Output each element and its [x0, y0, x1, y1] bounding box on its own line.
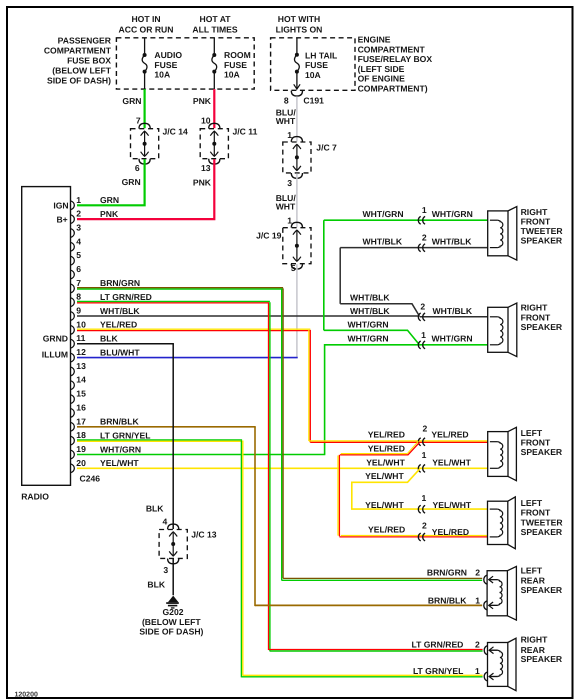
- svg-text:19: 19: [76, 444, 86, 454]
- label LT GRN/RED: [412, 640, 481, 650]
- svg-text:LEFT: LEFT: [521, 498, 543, 508]
- fuse box: passenger compartment (dashed): [116, 38, 254, 89]
- ground G202: [166, 596, 179, 609]
- wire BLK vertical to J/C 13: [172, 344, 174, 529]
- fuse LH TAIL FUSE 10A: [294, 38, 300, 89]
- svg-text:YEL/WHT: YEL/WHT: [433, 500, 472, 510]
- label J/C 11 pin 10: [201, 115, 211, 125]
- svg-text:13: 13: [201, 163, 211, 173]
- label WHT/GRN right (speaker): [432, 333, 473, 343]
- svg-text:2: 2: [76, 209, 81, 219]
- node label HOT AT ALL TIMES: [192, 14, 237, 34]
- svg-text:SIDE OF DASH): SIDE OF DASH): [47, 76, 111, 86]
- label YEL/RED right (LF speaker): [431, 429, 468, 439]
- label RIGHT FRONT SPEAKER: [521, 302, 563, 332]
- label PNK (mid): [193, 178, 212, 188]
- connector right front speaker pin 1: [418, 330, 426, 349]
- svg-text:LT GRN/RED: LT GRN/RED: [100, 292, 152, 302]
- svg-text:GRN: GRN: [100, 195, 119, 205]
- svg-text:11: 11: [76, 333, 85, 343]
- svg-text:3: 3: [287, 178, 292, 188]
- svg-text:COMPARTMENT: COMPARTMENT: [358, 44, 426, 54]
- label BRN/BLK: [428, 596, 480, 606]
- svg-text:WHT/BLK: WHT/BLK: [432, 237, 472, 247]
- label WHT/BLK right (tweeter): [432, 237, 472, 247]
- svg-text:3: 3: [76, 223, 81, 233]
- wire pin20 YEL/WHT horizontal: [77, 467, 488, 469]
- label GRN (mid): [122, 177, 141, 187]
- svg-text:FUSE/RELAY BOX: FUSE/RELAY BOX: [358, 54, 433, 64]
- svg-text:J/C 7: J/C 7: [316, 143, 337, 153]
- wire WHT/BLK into right front speaker: [420, 316, 488, 318]
- junction connector J/C 14: [131, 123, 159, 164]
- svg-text:WHT/BLK: WHT/BLK: [100, 306, 140, 316]
- fuse box: engine compartment (dashed): [271, 38, 355, 91]
- wire WHT/GRN branch horizontal+diagonal: [324, 330, 419, 344]
- svg-text:7: 7: [136, 115, 141, 125]
- svg-text:BLK: BLK: [100, 334, 118, 344]
- label J/C 14 pin 6: [135, 163, 140, 173]
- connector left front speaker pin 2: [418, 424, 427, 446]
- svg-text:2: 2: [423, 424, 428, 434]
- svg-text:RIGHT: RIGHT: [521, 207, 548, 217]
- svg-text:WHT: WHT: [276, 201, 296, 211]
- label YEL/WHT right (LF tweeter): [433, 500, 472, 510]
- label BLK (above J/C 13): [146, 504, 164, 514]
- speaker right front: [488, 303, 517, 357]
- label B+: [56, 215, 67, 225]
- svg-text:BLK: BLK: [147, 580, 165, 590]
- svg-text:ILLUM: ILLUM: [42, 349, 68, 359]
- svg-text:15: 15: [76, 389, 86, 399]
- svg-text:WHT/GRN: WHT/GRN: [432, 333, 473, 343]
- label WHT/BLK left (tweeter): [363, 237, 403, 247]
- svg-text:RIGHT: RIGHT: [521, 302, 548, 312]
- svg-text:J/C 13: J/C 13: [191, 530, 217, 540]
- svg-text:YEL/RED: YEL/RED: [432, 527, 469, 537]
- svg-text:HOT WITH: HOT WITH: [278, 14, 320, 24]
- label WHT/GRN (pin19 near connector): [348, 333, 389, 343]
- svg-text:FUSE: FUSE: [154, 60, 177, 70]
- svg-text:FRONT: FRONT: [521, 312, 551, 322]
- wire YEL/RED into LF tweeter row: [339, 536, 487, 537]
- svg-text:BRN/BLK: BRN/BLK: [100, 417, 139, 427]
- junction connector J/C 19: [283, 222, 311, 269]
- svg-text:10A: 10A: [224, 69, 240, 79]
- label YEL/RED right (LF tweeter): [432, 527, 469, 537]
- svg-text:B+: B+: [56, 215, 67, 225]
- svg-text:YEL/WHT: YEL/WHT: [365, 471, 404, 481]
- connector C191: [284, 91, 324, 106]
- svg-text:REAR: REAR: [521, 576, 546, 586]
- svg-text:YEL/WHT: YEL/WHT: [100, 458, 139, 468]
- svg-text:COMPARTMENT): COMPARTMENT): [358, 84, 428, 94]
- wire PNK fuse to J/C 11: [213, 89, 215, 128]
- svg-text:FUSE BOX: FUSE BOX: [67, 55, 111, 65]
- wire WHT/GRN tweeter row: [324, 219, 488, 221]
- svg-text:2: 2: [475, 640, 480, 650]
- label ground location: [139, 617, 203, 637]
- svg-text:10: 10: [76, 319, 86, 329]
- svg-text:WHT/GRN: WHT/GRN: [348, 333, 389, 343]
- svg-text:GRND: GRND: [43, 333, 68, 343]
- svg-text:18: 18: [76, 430, 86, 440]
- wire BLU/WHT C191 to J/C 7: [296, 96, 298, 141]
- label ILLUM: [42, 349, 68, 359]
- wire BLU/WHT J/C 7 to J/C 19: [296, 173, 298, 227]
- label J/C 13: [191, 530, 217, 540]
- label 120200: [15, 691, 38, 698]
- svg-text:SPEAKER: SPEAKER: [521, 322, 563, 332]
- wire WHT/BLK branch horizontal+diagonal: [340, 304, 419, 316]
- svg-text:8: 8: [76, 292, 81, 302]
- svg-text:10: 10: [201, 115, 211, 125]
- svg-text:SIDE OF DASH): SIDE OF DASH): [139, 626, 203, 636]
- wire pin8 LT GRN/RED horizontal: [77, 302, 270, 303]
- node label HOT WITH LIGHTS ON: [276, 14, 323, 34]
- label LH TAIL FUSE 10A: [305, 51, 337, 80]
- svg-text:7: 7: [76, 278, 81, 288]
- svg-text:J/C 11: J/C 11: [233, 126, 258, 136]
- wire YEL/RED pin10 feed: [309, 441, 488, 442]
- label LEFT FRONT TWEETER SPEAKER: [521, 498, 564, 537]
- svg-text:PNK: PNK: [100, 209, 119, 219]
- connector tweeter pin 2: [418, 233, 427, 252]
- svg-text:WHT/BLK: WHT/BLK: [433, 306, 473, 316]
- svg-text:16: 16: [76, 402, 86, 412]
- svg-text:FUSE: FUSE: [224, 60, 247, 70]
- label WHT/BLK (branch): [350, 293, 390, 303]
- svg-text:3: 3: [163, 565, 168, 575]
- svg-text:8: 8: [284, 95, 289, 105]
- label J/C 13 pin 4: [163, 516, 168, 526]
- svg-text:6: 6: [76, 264, 81, 274]
- svg-text:BRN/BLK: BRN/BLK: [428, 596, 467, 606]
- wire LT GRN/YEL vertical: [241, 441, 242, 678]
- svg-text:PNK: PNK: [193, 96, 212, 106]
- wire PNK J/C 11 to radio pin 2: [77, 159, 214, 219]
- label YEL/RED (pin10 feed): [368, 429, 405, 439]
- svg-text:YEL/RED: YEL/RED: [431, 429, 468, 439]
- label J/C 7: [316, 143, 337, 153]
- label J/C 11: [233, 126, 258, 136]
- label J/C 19: [256, 231, 282, 241]
- svg-text:G202: G202: [162, 607, 183, 617]
- svg-text:(BELOW LEFT: (BELOW LEFT: [52, 65, 111, 75]
- svg-text:13: 13: [76, 361, 86, 371]
- svg-text:ENGINE: ENGINE: [358, 35, 391, 45]
- svg-text:GRN: GRN: [122, 96, 141, 106]
- svg-text:1: 1: [421, 330, 426, 340]
- svg-text:1: 1: [422, 493, 427, 503]
- wire BRN/GRN vertical: [282, 288, 283, 580]
- svg-text:20: 20: [76, 458, 86, 468]
- label YEL/WHT (branch lower): [365, 500, 404, 510]
- svg-text:5: 5: [291, 263, 296, 273]
- svg-text:WHT/BLK: WHT/BLK: [350, 293, 390, 303]
- svg-text:RIGHT: RIGHT: [521, 635, 548, 645]
- speaker left front tweeter: [488, 497, 516, 549]
- svg-text:PASSENGER: PASSENGER: [58, 36, 112, 46]
- svg-text:17: 17: [76, 416, 86, 426]
- svg-text:J/C 14: J/C 14: [163, 126, 189, 136]
- svg-text:1: 1: [422, 205, 427, 215]
- wire GRN fuse to J/C 14: [144, 89, 146, 128]
- label WHT/GRN (branch): [348, 320, 389, 330]
- label C246: [80, 473, 101, 483]
- label LEFT REAR SPEAKER: [521, 565, 563, 595]
- speaker right rear: [484, 638, 516, 691]
- svg-text:FUSE: FUSE: [305, 60, 328, 70]
- label LT GRN/YEL: [413, 666, 480, 676]
- wire WHT/BLK tweeter row: [340, 247, 488, 249]
- svg-text:AUDIO: AUDIO: [154, 50, 182, 60]
- wire pin10 YEL/RED horizontal: [77, 329, 310, 330]
- svg-text:YEL/WHT: YEL/WHT: [365, 500, 404, 510]
- speaker left rear: [484, 566, 517, 620]
- svg-text:COMPARTMENT: COMPARTMENT: [44, 45, 112, 55]
- svg-text:WHT/GRN: WHT/GRN: [100, 444, 141, 454]
- label WHT/GRN left (tweeter): [363, 209, 404, 219]
- svg-text:5: 5: [76, 250, 81, 260]
- svg-text:IGN: IGN: [53, 201, 68, 211]
- svg-text:SPEAKER: SPEAKER: [521, 447, 563, 457]
- label YEL/WHT (pin20): [366, 457, 405, 467]
- label BLU/WHT (2): [276, 193, 297, 211]
- svg-text:LT GRN/YEL: LT GRN/YEL: [100, 430, 150, 440]
- radio connector pin terminals 1-20: [71, 201, 75, 473]
- svg-text:ACC OR RUN: ACC OR RUN: [119, 24, 174, 34]
- fuse AUDIO FUSE 10A: [142, 38, 147, 89]
- svg-text:YEL/WHT: YEL/WHT: [366, 457, 405, 467]
- wire BRN/BLK vertical: [254, 427, 256, 606]
- svg-text:WHT/GRN: WHT/GRN: [348, 320, 389, 330]
- svg-text:WHT/BLK: WHT/BLK: [350, 306, 390, 316]
- svg-text:LT GRN/YEL: LT GRN/YEL: [413, 666, 463, 676]
- svg-text:YEL/RED: YEL/RED: [368, 444, 405, 454]
- label BRN/GRN: [427, 568, 480, 578]
- label YEL/WHT (branch upper): [365, 471, 404, 481]
- wire BLK J/C 13 to ground: [172, 559, 174, 595]
- label RADIO: [21, 491, 49, 501]
- svg-text:J/C 19: J/C 19: [256, 231, 282, 241]
- wire LT GRN/YEL horizontal to right rear: [241, 675, 482, 677]
- label GRND: [43, 333, 68, 343]
- svg-text:HOT IN: HOT IN: [131, 14, 160, 24]
- wire pin7 BRN/GRN horizontal: [77, 288, 283, 289]
- label J/C 11 pin 13: [201, 163, 211, 173]
- svg-text:14: 14: [76, 375, 86, 385]
- wire pin17 BRN/BLK horizontal: [77, 426, 256, 428]
- svg-text:LEFT: LEFT: [521, 565, 543, 575]
- label PNK (top): [193, 96, 212, 106]
- label engine compartment fuse/relay box: [358, 35, 433, 94]
- connector left front speaker pin 1: [418, 450, 426, 472]
- svg-text:WHT: WHT: [276, 116, 296, 126]
- label J/C 14 pin 7: [136, 115, 141, 125]
- label G202: [162, 607, 183, 617]
- label YEL/RED (branch): [368, 444, 405, 454]
- wire WHT/GRN pin19 riser: [325, 345, 488, 455]
- svg-text:BLU/WHT: BLU/WHT: [100, 347, 140, 357]
- radio connector pin numbers 1-20: [76, 195, 86, 468]
- label WHT/BLK (pin9 near connector): [350, 306, 390, 316]
- svg-text:LIGHTS ON: LIGHTS ON: [276, 24, 323, 34]
- svg-text:BRN/GRN: BRN/GRN: [427, 568, 467, 578]
- svg-text:1: 1: [422, 450, 427, 460]
- svg-text:TWEETER: TWEETER: [521, 517, 564, 527]
- junction connector J/C 13: [159, 524, 187, 564]
- radio pin wire labels: [100, 195, 152, 468]
- label RIGHT FRONT TWEETER SPEAKER: [521, 207, 564, 246]
- label WHT/GRN right (tweeter): [432, 209, 473, 219]
- svg-text:SPEAKER: SPEAKER: [521, 654, 563, 664]
- label GRN (top): [122, 96, 141, 106]
- svg-text:SPEAKER: SPEAKER: [521, 527, 563, 537]
- label J/C 19 pin 1: [287, 216, 292, 226]
- svg-text:1: 1: [76, 195, 81, 205]
- label IGN: [53, 201, 68, 211]
- label J/C 13 pin 3: [163, 565, 168, 575]
- svg-text:12: 12: [76, 347, 86, 357]
- wire GRN J/C 14 to radio pin 1: [77, 159, 145, 205]
- svg-text:FRONT: FRONT: [521, 508, 551, 518]
- svg-text:WHT/GRN: WHT/GRN: [363, 209, 404, 219]
- svg-text:GRN: GRN: [122, 177, 141, 187]
- radio connector box: [22, 187, 71, 486]
- label YEL/WHT right (LF speaker): [432, 458, 471, 468]
- svg-text:SPEAKER: SPEAKER: [521, 236, 563, 246]
- connector right front speaker pin 2: [418, 301, 425, 321]
- svg-text:LH TAIL: LH TAIL: [305, 51, 337, 61]
- svg-text:LT GRN/RED: LT GRN/RED: [412, 640, 464, 650]
- svg-text:2: 2: [475, 568, 480, 578]
- svg-text:YEL/WHT: YEL/WHT: [432, 458, 471, 468]
- wire pin18 LT GRN/YEL horizontal: [77, 440, 244, 441]
- svg-text:10A: 10A: [154, 69, 170, 79]
- svg-text:(BELOW LEFT: (BELOW LEFT: [142, 617, 201, 627]
- label RIGHT REAR SPEAKER: [521, 635, 563, 665]
- wire YEL/RED branch: [338, 441, 420, 536]
- wire WHT/BLK branch vertical: [339, 248, 341, 304]
- label J/C 7 pin 3: [287, 178, 292, 188]
- svg-text:4: 4: [76, 236, 81, 246]
- svg-text:2: 2: [420, 301, 425, 311]
- svg-text:PNK: PNK: [193, 178, 212, 188]
- svg-text:FRONT: FRONT: [521, 437, 551, 447]
- fuse ROOM FUSE 10A: [212, 38, 217, 89]
- svg-text:WHT/GRN: WHT/GRN: [432, 209, 473, 219]
- svg-text:1: 1: [475, 666, 480, 676]
- svg-text:2: 2: [422, 521, 427, 531]
- svg-text:SPEAKER: SPEAKER: [521, 585, 563, 595]
- svg-text:C191: C191: [303, 95, 324, 105]
- svg-text:6: 6: [135, 163, 140, 173]
- svg-text:C246: C246: [80, 473, 101, 483]
- wire WHT/GRN branch vertical: [323, 220, 325, 330]
- svg-text:10A: 10A: [305, 70, 321, 80]
- wire BLU/WHT J/C 19 down to illumination net: [296, 264, 298, 357]
- wire pin11 BLK horizontal: [77, 343, 174, 345]
- svg-text:BLK: BLK: [146, 504, 164, 514]
- svg-text:(LEFT SIDE: (LEFT SIDE: [358, 64, 405, 74]
- wire LT GRN/RED vertical: [269, 302, 270, 651]
- wire pin9 WHT/BLK horizontal: [77, 315, 420, 317]
- svg-text:120200: 120200: [15, 691, 38, 698]
- svg-text:4: 4: [163, 516, 168, 526]
- label BLU/WHT (1): [276, 107, 297, 125]
- svg-text:ALL TIMES: ALL TIMES: [192, 24, 237, 34]
- label J/C 19 pin 5: [291, 263, 296, 273]
- svg-text:BRN/GRN: BRN/GRN: [100, 278, 140, 288]
- wire BRN/BLK horizontal to left rear: [255, 604, 482, 606]
- speaker left front: [488, 427, 517, 480]
- svg-text:1: 1: [475, 596, 480, 606]
- svg-text:ROOM: ROOM: [224, 50, 251, 60]
- junction connector J/C 7: [283, 137, 311, 179]
- connector LF tweeter pin 2: [418, 521, 427, 541]
- junction connector J/C 11: [200, 123, 228, 164]
- svg-text:HOT AT: HOT AT: [199, 14, 231, 24]
- svg-text:WHT/BLK: WHT/BLK: [363, 237, 403, 247]
- label J/C 14: [163, 126, 189, 136]
- wire BRN/GRN horizontal to left rear: [282, 578, 483, 580]
- label J/C 7 pin 1: [287, 130, 292, 140]
- label passenger compartment fuse box: [44, 36, 112, 86]
- label YEL/RED left (LF tweeter): [368, 525, 405, 535]
- label BLK (below J/C 13): [147, 580, 165, 590]
- label ROOM FUSE 10A: [224, 50, 251, 79]
- speaker right front tweeter: [488, 207, 517, 261]
- svg-text:YEL/RED: YEL/RED: [368, 525, 405, 535]
- wire YEL/RED vertical (pin10): [309, 330, 310, 443]
- svg-text:2: 2: [422, 233, 427, 243]
- svg-text:YEL/RED: YEL/RED: [100, 320, 137, 330]
- svg-text:TWEETER: TWEETER: [521, 226, 564, 236]
- label LEFT FRONT SPEAKER: [521, 428, 563, 457]
- svg-text:OF ENGINE: OF ENGINE: [358, 74, 406, 84]
- svg-text:RADIO: RADIO: [21, 491, 49, 501]
- node label HOT IN ACC OR RUN: [119, 14, 174, 34]
- svg-text:9: 9: [76, 306, 81, 316]
- label WHT/BLK right (speaker): [433, 306, 473, 316]
- connector LF tweeter pin 1: [418, 493, 426, 513]
- wire LT GRN/RED horizontal to right rear: [269, 650, 483, 652]
- wire pin12 BLU/WHT horizontal: [77, 357, 298, 359]
- label AUDIO FUSE 10A: [154, 50, 182, 79]
- wire YEL/WHT branch: [352, 469, 488, 509]
- connector tweeter pin 1: [418, 205, 427, 224]
- svg-text:YEL/RED: YEL/RED: [368, 429, 405, 439]
- wire pin19 WHT/GRN horizontal: [77, 454, 325, 456]
